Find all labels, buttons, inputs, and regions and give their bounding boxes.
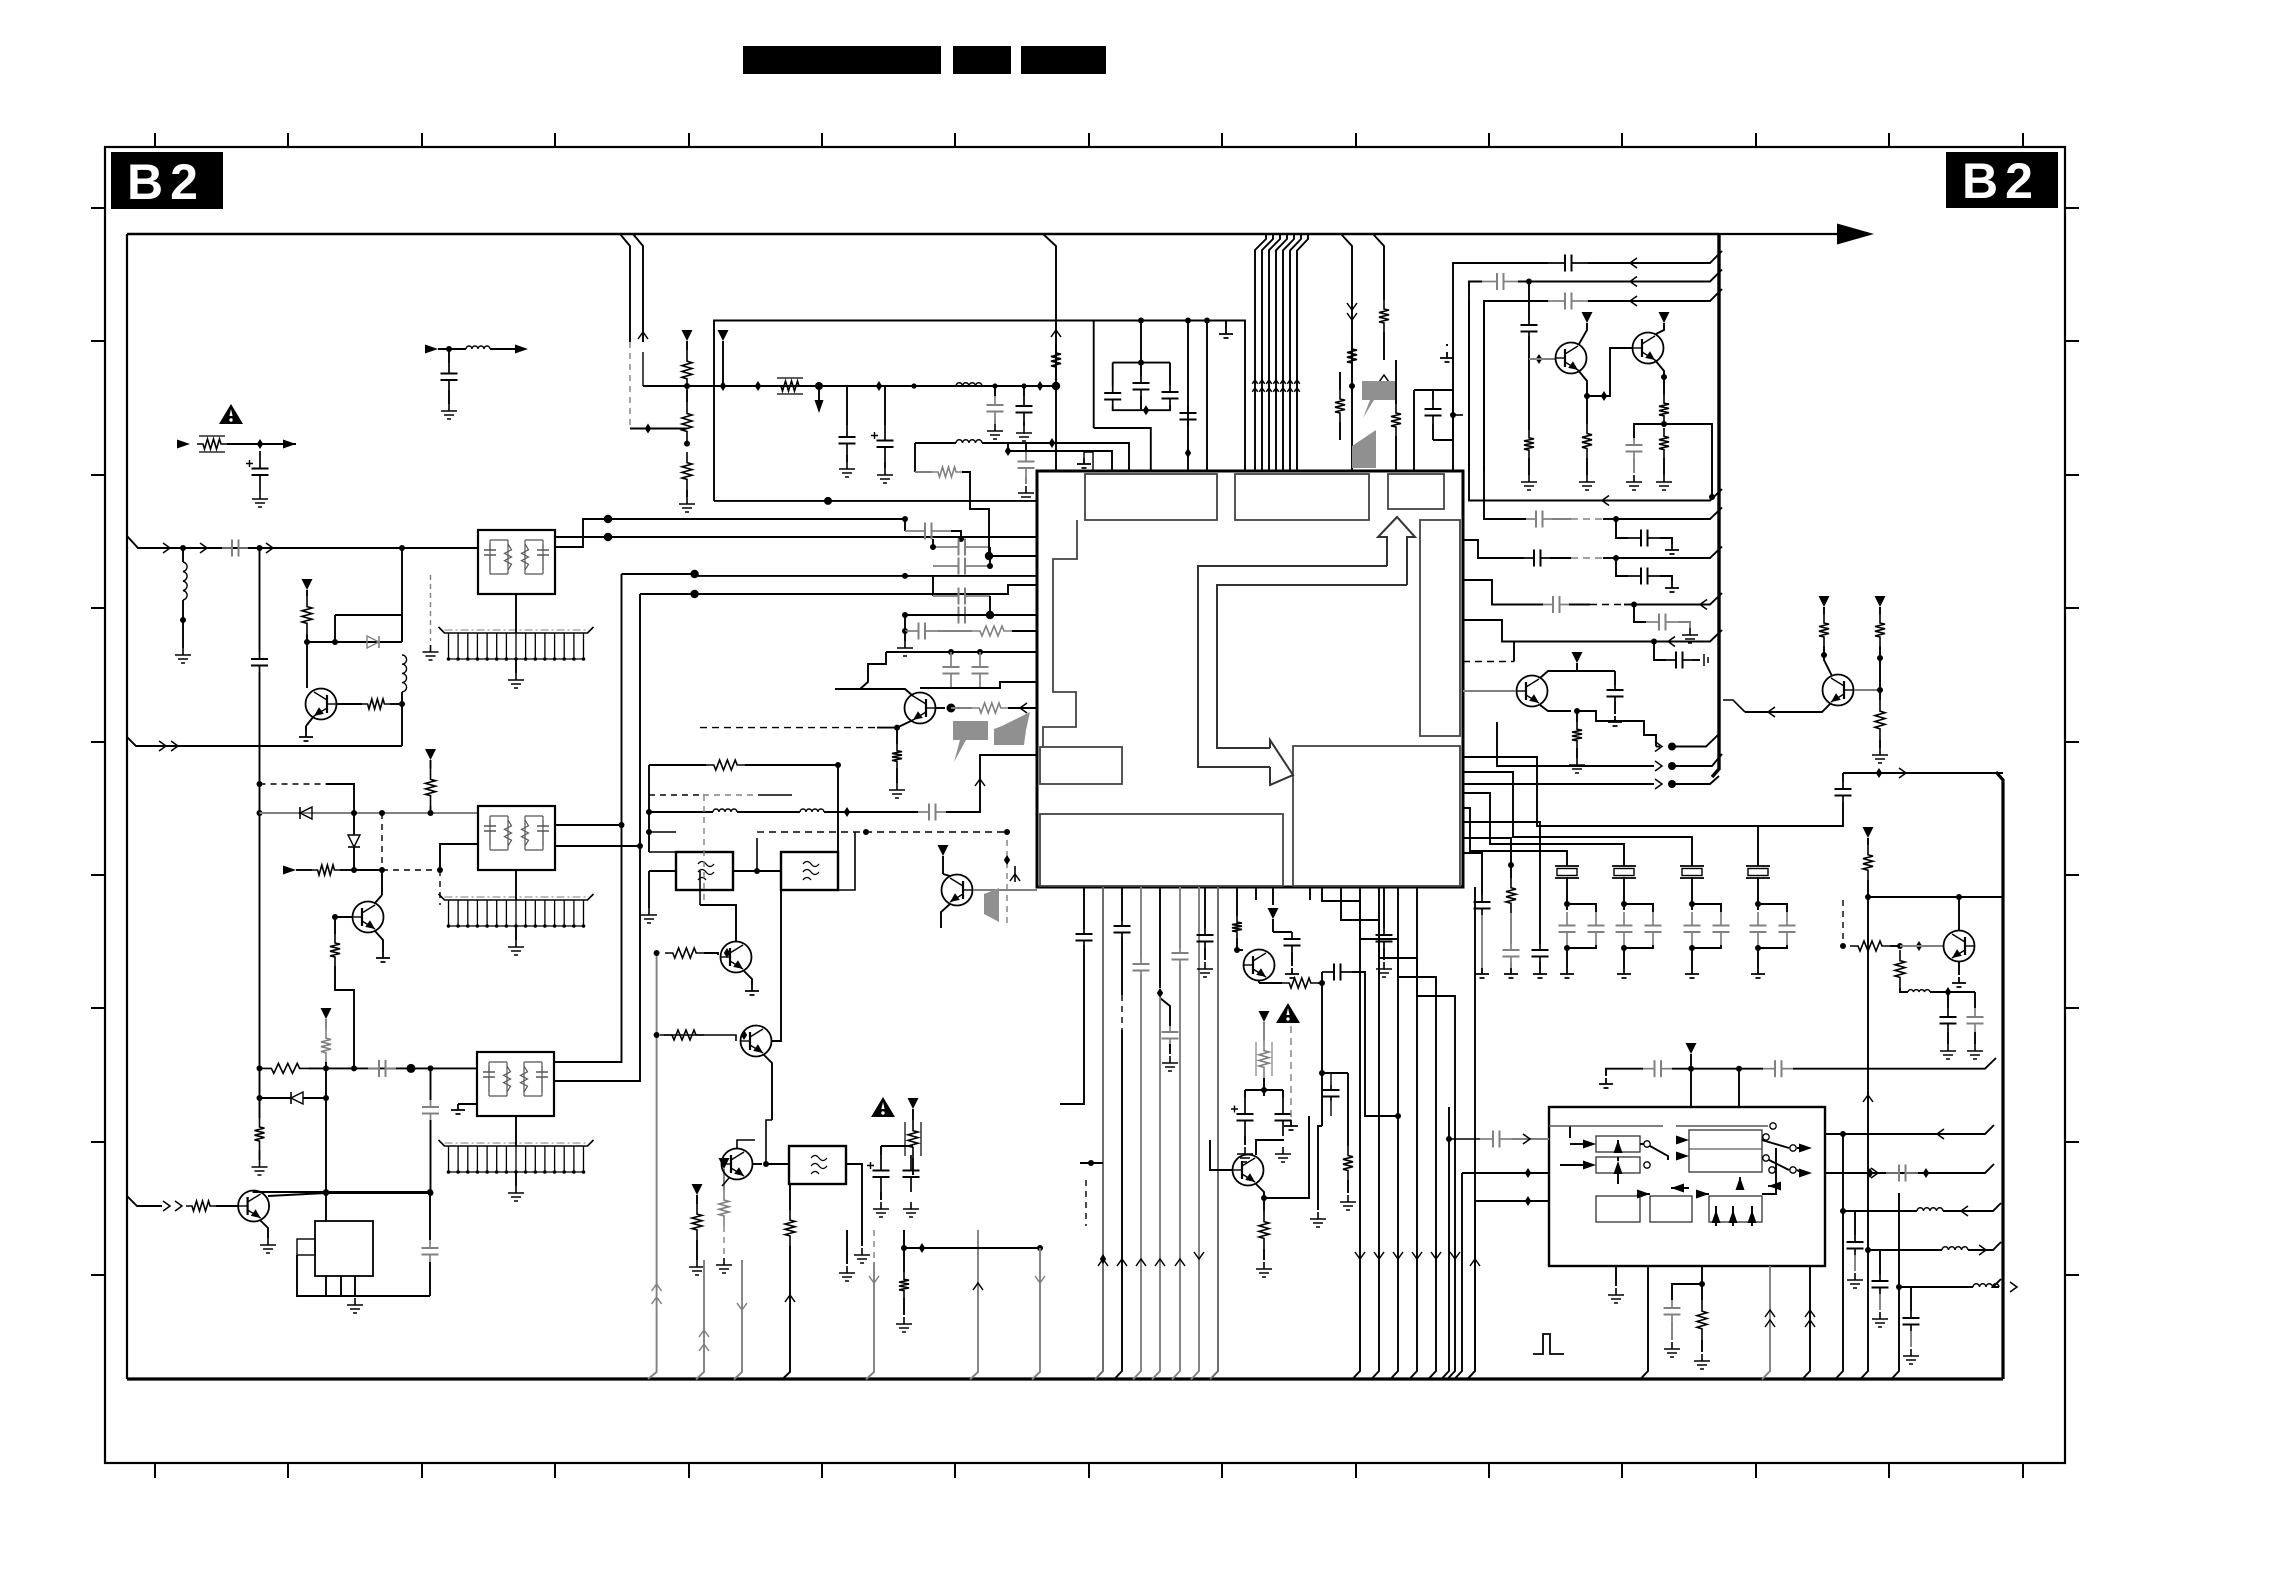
- junction: [437, 867, 443, 873]
- wire: [1258, 981, 1260, 983]
- ground: [1626, 475, 1642, 490]
- arrow: [869, 1276, 879, 1283]
- wire (dashed): [1571, 518, 1603, 520]
- wire: [1672, 754, 1722, 766]
- wire collector: [1579, 323, 1587, 344]
- wire: [430, 760, 432, 769]
- resonator X: [1746, 866, 1770, 878]
- junction: [1234, 947, 1240, 953]
- arrow out: [283, 440, 296, 449]
- ground: [1521, 475, 1537, 490]
- supply arrow: [1268, 908, 1279, 919]
- wire collector: [835, 689, 913, 696]
- ground: [175, 648, 191, 663]
- wire: [1433, 439, 1453, 441]
- resistor R606: [1259, 1211, 1269, 1249]
- wire bus drop: [1262, 234, 1273, 471]
- junction: [1709, 494, 1715, 500]
- junction: [637, 843, 643, 849]
- wire to IC: [920, 682, 1037, 688]
- junction: [763, 1161, 769, 1167]
- wire emitter: [306, 716, 314, 726]
- wire: [1204, 948, 1206, 960]
- wire: [1879, 1294, 1881, 1310]
- wire: [303, 1097, 326, 1099]
- junction: [1621, 945, 1627, 951]
- wire riser: [970, 1230, 978, 1380]
- arrow: [1765, 1320, 1775, 1327]
- ground: [1077, 458, 1091, 468]
- wire: [1432, 390, 1434, 400]
- wire: [1225, 321, 1227, 329]
- capacitor C519: [1646, 614, 1678, 631]
- wire: [914, 385, 956, 387]
- wire: [1879, 646, 1881, 700]
- wire: [1560, 1164, 1585, 1166]
- switch contact: [1763, 1134, 1769, 1140]
- IC U2 box4: [1596, 1196, 1640, 1222]
- wire riser: [1095, 887, 1103, 1380]
- wire: [722, 341, 724, 386]
- ground: [745, 985, 759, 995]
- wire: [1723, 700, 1745, 712]
- capacitor C610: [1480, 1131, 1512, 1148]
- arrow: [1863, 1095, 1873, 1102]
- capacitor C202 (electrolytic): [871, 432, 878, 439]
- wire: [1347, 1180, 1349, 1193]
- capacitor C512: [1548, 293, 1588, 310]
- wire riser: [1762, 1266, 1770, 1380]
- terminal: [1790, 1167, 1796, 1173]
- capacitor C612: [1886, 1165, 1918, 1182]
- IC U2 box6: [1709, 1196, 1762, 1222]
- arrow: [1668, 637, 1675, 647]
- arrow: [1671, 1184, 1684, 1193]
- junction: [1037, 381, 1043, 391]
- wire to arrow: [1719, 233, 1837, 235]
- arrow: [1768, 1182, 1781, 1191]
- wire: [1576, 663, 1578, 671]
- arrow: [266, 543, 273, 553]
- ground: [854, 1248, 870, 1263]
- wire: [390, 703, 402, 705]
- wire: [1692, 904, 1721, 912]
- ground: [1475, 968, 1489, 978]
- junction: [332, 914, 338, 920]
- capacitor C605: [1284, 932, 1301, 952]
- wire: [1603, 518, 1616, 520]
- arrow: [1655, 742, 1662, 752]
- wire: [1640, 1193, 1650, 1195]
- junction: [690, 570, 698, 578]
- junction: [1185, 318, 1191, 324]
- capacitor C605a: [1172, 948, 1189, 964]
- wire: [1256, 1140, 1284, 1155]
- junction: [992, 383, 997, 388]
- wire: [622, 573, 695, 575]
- capacitor C520: [1666, 652, 1692, 669]
- wire: [943, 874, 950, 876]
- capacitor C212: [943, 652, 960, 688]
- ground: [1340, 1195, 1356, 1210]
- wire riser: [1191, 887, 1199, 1380]
- arrow: [1637, 1190, 1650, 1199]
- wire: [429, 1192, 431, 1240]
- wire: [1793, 1058, 1996, 1069]
- arrow: [1736, 1177, 1745, 1190]
- ground: [508, 673, 524, 688]
- wire: [936, 707, 945, 709]
- wire (dashed): [757, 831, 1007, 833]
- wire emitter: [941, 904, 950, 928]
- capacitor C106: [422, 1100, 439, 1120]
- wire: [818, 386, 820, 400]
- resistor R604 (fusible): [1256, 1042, 1272, 1076]
- wire riser: [1802, 1266, 1810, 1380]
- IF transformer T103: [477, 1052, 554, 1116]
- ground: [641, 908, 657, 923]
- wire IF2 out A: [554, 574, 622, 1062]
- junction: [1574, 708, 1580, 714]
- ground: [1569, 758, 1585, 773]
- svg-text:B2: B2: [1962, 153, 2040, 209]
- resistor R307 (fusible): [905, 1122, 921, 1156]
- wire (dashed): [700, 727, 877, 729]
- wire: [335, 614, 402, 616]
- resistor R202: [682, 402, 692, 443]
- resistor R607: [1506, 878, 1516, 913]
- wire: [1121, 887, 1123, 921]
- ground: [1940, 1044, 1956, 1059]
- supply arrow: [1582, 312, 1593, 323]
- capacitor C205: [1018, 452, 1035, 477]
- pulse waveform: [1533, 1334, 1564, 1354]
- transistor Q302: [741, 1026, 772, 1057]
- wire (dashed): [430, 575, 432, 641]
- resistor R503a: [1659, 395, 1669, 424]
- wire riser: [1032, 1248, 1040, 1380]
- junction: [1867, 1168, 1873, 1178]
- IC U2: [1549, 1107, 1825, 1266]
- wire: [1867, 880, 1869, 897]
- junction: [379, 810, 385, 816]
- wire: [1576, 711, 1578, 722]
- wire: [490, 348, 516, 350]
- wire: [1617, 1173, 1619, 1184]
- junction: [1956, 894, 1962, 900]
- ground: [1694, 1354, 1710, 1369]
- wire: [758, 794, 792, 796]
- wire: [660, 1035, 736, 1041]
- arrow: [1266, 380, 1272, 384]
- capacitor C518: [1543, 596, 1569, 613]
- junction: [1877, 655, 1883, 661]
- arrow: [1412, 1252, 1422, 1259]
- wire (dashed): [1006, 840, 1008, 928]
- wire: [227, 443, 296, 445]
- wire: [1567, 945, 1596, 948]
- wire: [438, 348, 466, 350]
- junction: [1661, 374, 1667, 380]
- wire: [1671, 1322, 1673, 1340]
- wire: [1958, 962, 1960, 975]
- resistor R110: [255, 1118, 265, 1150]
- junction: [876, 381, 882, 391]
- wire: [1453, 263, 1548, 471]
- wire: [1577, 711, 1656, 747]
- resistor R104: [426, 769, 436, 806]
- transistor Q301: [721, 942, 752, 973]
- IF transformer T102: [478, 806, 555, 870]
- wire: [1797, 1147, 1803, 1149]
- ground: [1285, 968, 1299, 978]
- wire: [1634, 605, 1646, 623]
- arrow: [1630, 277, 1637, 287]
- wire: [846, 1230, 848, 1264]
- arrow: [1355, 1252, 1365, 1259]
- wire: [1691, 945, 1693, 968]
- resistor R503b: [1659, 428, 1669, 458]
- ground: [1656, 475, 1672, 490]
- wire: [1432, 424, 1434, 440]
- wire: [764, 1055, 772, 1120]
- wire: [1121, 937, 1123, 995]
- junction: [902, 516, 908, 522]
- ground: [1560, 968, 1574, 978]
- wire: [1672, 776, 1719, 784]
- resistor R105: [312, 865, 340, 875]
- ground: [1016, 426, 1032, 441]
- resistor R506: [1875, 700, 1885, 740]
- ground: [260, 1238, 276, 1253]
- wire: [1660, 538, 1672, 544]
- inductor L501: [1908, 990, 1930, 992]
- wire: [1395, 360, 1397, 404]
- resistor R403: [1379, 300, 1389, 332]
- junction: [180, 545, 186, 551]
- resistor R404: [1335, 390, 1345, 422]
- wire: [982, 443, 1129, 471]
- arrow: [652, 1284, 662, 1291]
- wire: [1014, 866, 1016, 882]
- wire: [1868, 896, 2003, 898]
- wire: [1943, 1203, 2001, 1211]
- resistor R604 (fusible): [1259, 1040, 1269, 1078]
- wire: [699, 871, 701, 905]
- junction: [604, 515, 612, 523]
- wire: [326, 1192, 431, 1194]
- wire: [1576, 748, 1578, 758]
- wire switch: [1650, 1146, 1668, 1160]
- junction: [323, 1065, 329, 1071]
- arrow: [1347, 303, 1357, 310]
- junction: [1877, 687, 1883, 693]
- junction: [755, 381, 761, 391]
- resistor R401: [1051, 344, 1061, 376]
- wire bus drop: [1255, 234, 1266, 471]
- arrow: [785, 1295, 795, 1302]
- wire: [1339, 422, 1341, 440]
- IC U1 gnd step: [1084, 452, 1093, 471]
- wire: [1678, 622, 1690, 628]
- wire: [1060, 945, 1084, 1104]
- arrow: [699, 1330, 709, 1337]
- arrow: [652, 1297, 662, 1304]
- supply arrow: [908, 1098, 919, 1109]
- capacitor C510: [1548, 255, 1588, 272]
- wire: [1321, 972, 1323, 983]
- wire (dashed): [703, 794, 758, 796]
- ground: [873, 1202, 889, 1217]
- wire: [649, 764, 706, 766]
- wire: [846, 455, 848, 462]
- wire: [515, 1116, 517, 1146]
- wire: [896, 768, 898, 783]
- wire: [1272, 919, 1274, 932]
- wire: [1023, 386, 1025, 396]
- capacitor: [1750, 912, 1767, 945]
- wire: [704, 953, 718, 955]
- junction: [1319, 1070, 1325, 1076]
- wire: [1692, 659, 1700, 661]
- warning symbol: [219, 404, 243, 424]
- wire: [1481, 915, 1483, 968]
- wire long: [714, 321, 1141, 501]
- wire: [430, 1120, 432, 1193]
- wire: [884, 386, 886, 425]
- arrow: [1961, 1206, 1968, 1216]
- wire: [1263, 1249, 1265, 1260]
- wire riser: [1467, 1201, 1475, 1380]
- wire: [1518, 270, 1722, 282]
- wire: [1263, 1022, 1265, 1040]
- capacitor C611: [1664, 1300, 1681, 1322]
- junction: [1052, 382, 1060, 390]
- wire: [1974, 1032, 1976, 1044]
- capacitor: [1474, 895, 1491, 915]
- highlight flag: [1362, 381, 1396, 418]
- terminal: [1790, 1145, 1796, 1151]
- junction: [1204, 318, 1210, 324]
- bus wire right upper: [1712, 234, 1719, 777]
- junction: [1821, 652, 1827, 658]
- arrow: [1280, 380, 1286, 384]
- wire: [915, 471, 932, 473]
- wire: [326, 1191, 430, 1193]
- junction: [1876, 768, 1882, 778]
- arrow: [1287, 388, 1293, 392]
- wire: [838, 832, 855, 890]
- wire: [1879, 1250, 1881, 1274]
- wire: [1617, 1157, 1619, 1161]
- wire: [555, 845, 640, 847]
- wire IC pin drop: [1379, 887, 1417, 1380]
- ground: [299, 731, 313, 741]
- wire to IC: [886, 651, 1037, 653]
- wire: [880, 1192, 882, 1200]
- capacitor C511: [1482, 273, 1518, 290]
- bus wire right lower: [1996, 772, 2003, 1379]
- junction: [257, 810, 263, 816]
- wire: [1008, 451, 1112, 471]
- wire: [1758, 904, 1787, 912]
- arrow: [1630, 296, 1637, 306]
- wire: [515, 594, 517, 633]
- junction: [379, 867, 385, 873]
- wire riser: [1860, 897, 1868, 1380]
- wire: [877, 728, 897, 744]
- wire: [860, 652, 886, 689]
- ground: [889, 783, 905, 798]
- ground: [376, 952, 390, 962]
- capacitor C608: [1275, 1098, 1292, 1136]
- wire: [884, 462, 886, 468]
- wire: [1469, 301, 1596, 501]
- arrow: [1523, 1134, 1530, 1144]
- wire: [772, 890, 781, 1041]
- ground: [1608, 716, 1622, 726]
- wire riser: [1454, 1173, 1462, 1380]
- IC pin stub: [1309, 887, 1311, 900]
- wire: [912, 1158, 914, 1175]
- wire bus drop: [1269, 234, 1280, 471]
- wire: [1528, 336, 1530, 430]
- capacitor C404: [1180, 406, 1197, 426]
- wire: [1762, 1148, 1776, 1194]
- wire: [354, 1276, 356, 1296]
- resistor R107: [321, 1029, 331, 1062]
- capacitor C509b: [1763, 1060, 1793, 1077]
- wire: [989, 596, 991, 615]
- ground: [252, 1160, 268, 1175]
- wire RF input: [127, 536, 478, 548]
- wire (dashed): [1590, 604, 1624, 606]
- wire: [1690, 1069, 1692, 1107]
- arrow: [1393, 1252, 1403, 1259]
- capacitor: [1779, 912, 1796, 945]
- wire emitter: [375, 931, 383, 952]
- wire: [1825, 1164, 1994, 1173]
- IC U1: [1037, 471, 1463, 887]
- wire: [970, 501, 989, 556]
- junction: [1349, 383, 1355, 389]
- wire: [1732, 1206, 1734, 1226]
- junction: [1916, 941, 1922, 951]
- junction: [1185, 448, 1191, 458]
- wire: [1463, 783, 1654, 785]
- wire: [1113, 362, 1170, 364]
- wire: [515, 870, 517, 900]
- arrow: [1729, 1210, 1738, 1223]
- wire: [1868, 1249, 1942, 1251]
- wire: [1210, 1140, 1232, 1170]
- wire: [1854, 1255, 1856, 1271]
- wire: [1623, 877, 1625, 910]
- capacitor C502: [1626, 438, 1643, 458]
- wire: [1825, 1125, 1994, 1134]
- capacitor C105: [368, 1060, 396, 1077]
- ground: [1847, 1273, 1863, 1288]
- highlight flag: [984, 888, 999, 922]
- wire: [1867, 838, 1869, 845]
- wire: [1529, 358, 1556, 360]
- wire IC pin drop: [1417, 887, 1455, 1380]
- wire: [1463, 838, 1511, 878]
- resistor R102: [302, 596, 312, 634]
- supply arrow: [1659, 312, 1670, 323]
- wire: [182, 548, 184, 562]
- junction: [1319, 980, 1325, 986]
